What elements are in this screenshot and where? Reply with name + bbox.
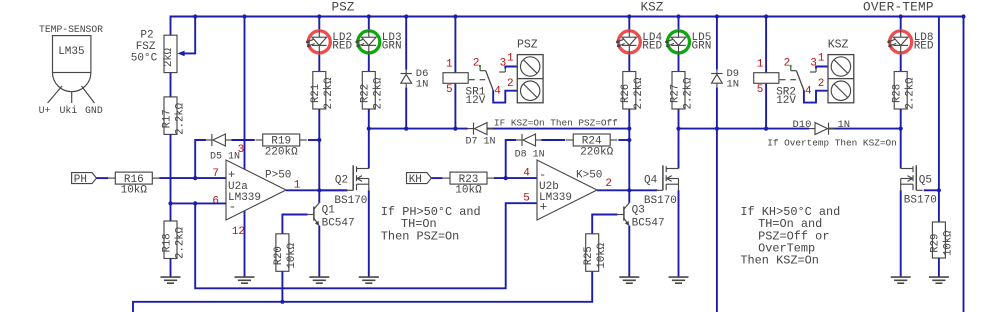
svg-text:BC547: BC547 — [322, 217, 355, 229]
svg-text:Q4: Q4 — [644, 174, 658, 186]
wire PSZ relay bus — [369, 128, 630, 130]
pin number 4 — [523, 168, 530, 180]
svg-text:BS170: BS170 — [334, 195, 367, 207]
wire: top supply bus — [171, 17, 964, 312]
wire KSZ relay bus — [679, 128, 901, 130]
resistor R22 — [360, 72, 385, 110]
svg-text:RED: RED — [332, 41, 352, 53]
svg-text:Q1: Q1 — [322, 205, 336, 217]
resistor R17 — [161, 97, 186, 135]
annotation If Overtemp Then KSZ=On — [767, 137, 896, 148]
node bus to LD8 column — [899, 127, 903, 131]
svg-text:RED: RED — [642, 41, 662, 53]
svg-text:K>50: K>50 — [576, 170, 602, 182]
wire KH tag to R23 — [431, 177, 442, 179]
wire Q1 collector — [318, 190, 320, 203]
wire D9 column — [716, 17, 718, 312]
pin number 1 (PSZ terminal) — [507, 52, 514, 64]
resistor R24 — [566, 134, 617, 159]
wire D5 to R19 — [231, 139, 254, 141]
label 1N (D10) — [838, 119, 851, 131]
wire U2a V+ pin 3 — [244, 17, 246, 170]
wire U2a out to Q2 gate — [319, 189, 347, 191]
svg-text:PH: PH — [74, 174, 87, 186]
diode D5 — [206, 134, 232, 146]
svg-text:Q3: Q3 — [632, 205, 645, 217]
node D6 on bus — [404, 127, 408, 131]
LED LD3 — [356, 30, 402, 53]
wire R28 to Q5 — [900, 109, 902, 169]
wire SR2 coil pin5 — [765, 83, 767, 128]
node SR2 pin5 on bus — [764, 127, 768, 131]
resistor R29 — [930, 222, 955, 258]
svg-text:1: 1 — [446, 58, 453, 70]
resistor R27 — [669, 72, 694, 110]
svg-text:R17: R17 — [161, 109, 173, 128]
svg-text:P>50: P>50 — [265, 170, 291, 182]
LED LD5 — [665, 30, 711, 53]
annotation If KH>50C block — [740, 205, 840, 268]
ground (Q3) — [619, 277, 639, 283]
node R22/relay bus — [367, 127, 371, 131]
wire P2 to R17 — [170, 73, 172, 97]
svg-text:2: 2 — [605, 178, 612, 190]
svg-text:2.2kΩ: 2.2kΩ — [633, 77, 645, 109]
svg-text:3: 3 — [238, 144, 245, 156]
label D10 — [793, 119, 812, 131]
input tag PH — [72, 173, 97, 187]
wire U2b output (pin2) — [597, 189, 657, 191]
pin number 12 — [232, 226, 245, 238]
label Q3 — [632, 205, 645, 217]
TEMP-SENSOR title — [39, 24, 103, 35]
node SR1 pin5 on bus — [453, 127, 457, 131]
svg-text:Uki: Uki — [60, 105, 78, 116]
screw terminal block PSZ — [517, 39, 543, 103]
wire R16 to U2a pin 7 — [159, 177, 226, 179]
annotation If PH>50C block — [381, 205, 481, 244]
wire Q3 collector — [628, 190, 630, 203]
ground (R29) — [929, 277, 949, 283]
transistor Q5 (BS170 N-MOSFET) — [901, 165, 923, 190]
annotation IF KSZ=On Then PSZ=Off — [494, 117, 618, 128]
wire TH base-drive rail — [133, 271, 592, 312]
wire Q1 emitter to ground — [318, 226, 320, 277]
pin number 4 (SR1 switch) — [494, 86, 501, 98]
svg-text:KH: KH — [409, 174, 422, 186]
node R20/base rail — [280, 300, 284, 304]
svg-text:GRN: GRN — [382, 41, 402, 53]
wire R20 to base-drive rail — [281, 271, 283, 302]
svg-text:10kΩ: 10kΩ — [455, 185, 482, 197]
pin number 3 (SR1 switch) — [500, 57, 507, 69]
svg-text:+: + — [228, 168, 235, 182]
pin number 4 (SR2 switch) — [805, 86, 812, 98]
resistor R20 — [273, 234, 298, 271]
pin number 2 (PSZ terminal) — [507, 78, 514, 90]
op-amp U2b (LM339) — [537, 160, 602, 220]
node Q5 gate/R29 column — [937, 188, 941, 192]
transistor Q2 (BS170 N-MOSFET) — [347, 165, 369, 190]
svg-text:KSZ: KSZ — [641, 0, 664, 15]
diode D7 — [468, 123, 494, 135]
resistor R23 — [443, 172, 494, 197]
ground (U2a pin12) — [235, 277, 255, 283]
sensor U1 LM35 (TO-92 outline) — [48, 36, 95, 103]
relay coil SR2 — [754, 73, 797, 108]
svg-text:LM35: LM35 — [58, 46, 84, 58]
ground (R18) — [161, 277, 181, 283]
label Q2 — [335, 174, 348, 186]
label BS170 (Q5) — [904, 195, 937, 207]
relay coil SR1 — [443, 73, 486, 108]
wire LD3 column — [368, 17, 370, 72]
potentiometer P2 labels — [131, 30, 158, 65]
pin number 5 (SR1) — [446, 84, 453, 96]
svg-text:1N: 1N — [727, 79, 740, 91]
svg-text:R25: R25 — [583, 246, 595, 265]
svg-text:6: 6 — [212, 196, 219, 208]
svg-text:2kΩ: 2kΩ — [163, 47, 175, 67]
label BC547 (Q3) — [632, 217, 665, 229]
svg-text:220kΩ: 220kΩ — [580, 147, 613, 159]
diode D10 — [809, 123, 835, 135]
svg-text:R27: R27 — [669, 84, 681, 103]
LED LD4 — [616, 30, 662, 53]
svg-text:Then KSZ=On: Then KSZ=On — [740, 254, 819, 268]
svg-text:5: 5 — [446, 84, 453, 96]
svg-text:7: 7 — [212, 168, 219, 180]
svg-text:R26: R26 — [620, 84, 632, 103]
svg-text:4: 4 — [523, 168, 530, 180]
pin number 2 — [605, 178, 612, 190]
pin number 2 (SR1 switch) — [473, 57, 480, 69]
svg-text:GRN: GRN — [692, 41, 712, 53]
svg-text:50°C: 50°C — [131, 52, 158, 64]
wire pin6 down-link to U2b pin5 (long bottom run) — [195, 203, 537, 288]
section label KSZ — [641, 0, 664, 15]
svg-text:R29: R29 — [930, 234, 942, 253]
ground (Q2) — [359, 277, 379, 283]
pin number 3 (SR2 switch) — [810, 57, 817, 69]
resistor R16 — [108, 172, 159, 197]
wire R21 to output node — [318, 109, 320, 190]
ground (Q5) — [891, 277, 911, 283]
wire R23 to U2b pin4 — [494, 177, 537, 179]
wire Q3 emitter to ground — [628, 226, 630, 277]
node pin6/downlink — [193, 201, 197, 205]
node: R19/PSZ column — [317, 138, 321, 142]
pin number 6 — [212, 196, 219, 208]
svg-text:KSZ: KSZ — [828, 39, 849, 52]
svg-text:5: 5 — [523, 193, 530, 205]
pin number 3 — [238, 144, 245, 156]
label BS170 (Q2) — [334, 195, 367, 207]
svg-text:R18: R18 — [161, 233, 173, 252]
label D8 1N — [515, 149, 545, 160]
sensor pin labels U+ Uki GND — [39, 105, 103, 116]
svg-text:D7 1N: D7 1N — [466, 137, 496, 148]
ground (Q4) — [669, 277, 689, 283]
node output/PSZ column — [317, 188, 321, 192]
svg-text:GND: GND — [85, 105, 103, 116]
wire D5 to pin7 node — [195, 140, 206, 178]
svg-text:Q5: Q5 — [919, 174, 932, 186]
wire U2a GND pin 12 — [244, 211, 246, 277]
section label OVER-TEMP — [863, 0, 934, 15]
wire D6 column — [405, 17, 407, 129]
ground (Q1) — [309, 277, 329, 283]
wire Q2 source to ground — [368, 190, 370, 277]
wire SR2 pin4 to terminal 2 — [804, 90, 828, 102]
op-amp U2a (LM339) — [226, 160, 291, 220]
svg-text:2: 2 — [818, 78, 825, 90]
resistor R21 — [310, 72, 335, 110]
wire D8 to R24 — [542, 139, 566, 141]
svg-text:LM339: LM339 — [539, 192, 572, 204]
svg-text:10kΩ: 10kΩ — [286, 242, 298, 268]
svg-text:BC547: BC547 — [632, 217, 665, 229]
node pin4 junction — [504, 176, 508, 180]
svg-text:P2: P2 — [140, 30, 153, 42]
pin number 1 (KSZ terminal) — [818, 52, 825, 64]
resistor R26 — [620, 72, 645, 110]
wire SR2 pin3 to terminal 1 — [816, 67, 828, 69]
pin number 7 — [212, 168, 219, 180]
pin number 2 (KSZ terminal) — [818, 78, 825, 90]
svg-text:LM339: LM339 — [228, 192, 261, 204]
svg-text:Then PSZ=On: Then PSZ=On — [381, 229, 460, 243]
wire LD8 column — [900, 17, 902, 72]
svg-text:2.2kΩ: 2.2kΩ — [323, 77, 335, 109]
svg-text:2: 2 — [507, 78, 514, 90]
svg-text:D10: D10 — [793, 119, 812, 131]
svg-text:4: 4 — [494, 86, 501, 98]
label Q5 — [919, 174, 932, 186]
svg-text:IF KSZ=On Then PSZ=Off: IF KSZ=On Then PSZ=Off — [494, 117, 618, 128]
resistor P2 (2k pot) — [163, 35, 177, 72]
svg-text:5: 5 — [757, 84, 764, 96]
wire D8 to pin4 node — [506, 140, 516, 178]
wire R26 down KSZ column — [628, 109, 630, 190]
LED LD8 — [888, 30, 934, 53]
resistor R25 — [583, 234, 608, 271]
node R27/KSZ relay bus — [676, 127, 680, 131]
junction dots on top bus — [193, 14, 966, 18]
wire R25 to Q3 base — [592, 215, 617, 234]
wire R20 to Q1 base — [282, 215, 307, 234]
svg-text:2.2kΩ: 2.2kΩ — [174, 102, 186, 134]
input tag KH — [407, 173, 432, 187]
pin number 1 (SR2) — [757, 58, 764, 70]
wire R19 to PSZ column — [308, 139, 319, 141]
node bus to KSZ column — [627, 127, 631, 131]
svg-text:2.2kΩ: 2.2kΩ — [682, 77, 694, 109]
screw terminal block KSZ — [828, 39, 854, 103]
svg-text:2.2kΩ: 2.2kΩ — [174, 226, 186, 258]
svg-text:R28: R28 — [892, 84, 904, 103]
svg-text:2.2kΩ: 2.2kΩ — [373, 77, 385, 109]
svg-text:RED: RED — [914, 41, 934, 53]
diode D8 — [516, 134, 542, 146]
label BC547 — [322, 217, 355, 229]
pin number 2 (SR2 switch) — [784, 57, 791, 69]
svg-text:TEMP-SENSOR: TEMP-SENSOR — [39, 24, 103, 35]
pin number 5 (SR2) — [757, 84, 764, 96]
P2 wiper wire and arrow — [177, 17, 195, 57]
svg-text:2: 2 — [784, 57, 791, 69]
node: divider junction on pin6 net — [168, 201, 172, 205]
wire pin6 net (divider to U2a -) — [171, 202, 227, 204]
svg-text:2.2kΩ: 2.2kΩ — [905, 77, 917, 109]
svg-text:PSZ: PSZ — [517, 39, 538, 52]
wire LD5 column — [678, 17, 680, 72]
wire Q4 source to ground — [678, 190, 680, 277]
wire SR1 pin3 to terminal 1 — [505, 67, 517, 69]
pin number 1 — [294, 180, 301, 192]
svg-text:Q2: Q2 — [335, 174, 348, 186]
resistor R28 — [892, 72, 917, 110]
pin number 1 (SR1) — [446, 58, 453, 70]
svg-text:R22: R22 — [360, 84, 372, 103]
label Q1 — [322, 205, 336, 217]
label D7 1N — [466, 137, 496, 148]
svg-text:1: 1 — [757, 58, 764, 70]
resistor R19 — [256, 134, 307, 159]
svg-text:D8 1N: D8 1N — [515, 149, 545, 160]
svg-text:12: 12 — [232, 226, 245, 238]
wire Q5 source to ground — [900, 190, 902, 277]
LED LD2 — [306, 30, 352, 53]
wire U2a output (pin1) — [286, 189, 347, 191]
transistor Q3 (BC547 NPN) — [617, 203, 629, 226]
wire SR1 coil pin1 — [454, 17, 456, 73]
svg-text:D5 1N: D5 1N — [210, 152, 240, 163]
wire LD2 column — [318, 17, 320, 72]
relay switch contact (SR1) — [479, 65, 505, 91]
wire SR1 pin4 to terminal 2 — [493, 90, 517, 102]
svg-text:10kΩ: 10kΩ — [596, 242, 608, 268]
wire SR2 coil pin1 — [765, 17, 767, 73]
wire R18 to ground — [170, 259, 172, 278]
svg-text:BS170: BS170 — [644, 195, 677, 207]
svg-text:PSZ: PSZ — [332, 0, 355, 15]
svg-text:1: 1 — [507, 52, 514, 64]
svg-text:R20: R20 — [273, 246, 285, 265]
svg-text:12V: 12V — [776, 95, 796, 107]
node D9 on bus — [715, 127, 719, 131]
svg-text:-: - — [539, 168, 546, 182]
svg-text:1N: 1N — [838, 119, 851, 131]
svg-text:OVER-TEMP: OVER-TEMP — [863, 0, 934, 15]
transistor Q1 (BC547 NPN) — [307, 203, 319, 226]
wire R29 column from bus — [938, 17, 940, 223]
svg-text:10kΩ: 10kΩ — [943, 230, 955, 256]
node output/KSZ column — [627, 188, 631, 192]
svg-text:U+: U+ — [39, 105, 51, 116]
node: pin7 junction — [193, 176, 197, 180]
label Q4 — [644, 174, 658, 186]
pin number 5 — [523, 193, 530, 205]
svg-text:1N: 1N — [416, 79, 429, 91]
label D5 1N — [210, 152, 240, 163]
wire R17 down to divider node — [170, 134, 172, 221]
diode D6 — [401, 68, 429, 90]
transistor Q4 (BS170 N-MOSFET) — [657, 165, 679, 190]
wire R22 to Q2 drain — [368, 109, 370, 169]
svg-text:2: 2 — [473, 57, 480, 69]
label BS170 (Q4) — [644, 195, 677, 207]
section label PSZ — [332, 0, 355, 15]
wire LD4 column — [628, 17, 630, 72]
svg-text:220kΩ: 220kΩ — [265, 147, 298, 159]
svg-text:R21: R21 — [310, 84, 322, 103]
svg-text:BS170: BS170 — [904, 195, 937, 207]
wire R29 to ground — [938, 258, 940, 277]
wire PH tag to R16 — [97, 177, 109, 179]
wire SR1 coil pin5 — [454, 83, 456, 128]
svg-text:FSZ: FSZ — [136, 41, 156, 53]
resistor R18 — [161, 221, 186, 259]
diode D9 — [711, 68, 739, 90]
wire R27 to Q4 drain — [678, 109, 680, 169]
node R24/KSZ column — [627, 138, 631, 142]
svg-text:1: 1 — [818, 52, 825, 64]
relay switch contact (SR2) — [790, 65, 816, 91]
wire R24 to KSZ column — [618, 139, 629, 141]
svg-text:12V: 12V — [466, 95, 486, 107]
svg-text:4: 4 — [805, 86, 812, 98]
svg-text:10kΩ: 10kΩ — [121, 185, 148, 197]
svg-text:If Overtemp Then KSZ=On: If Overtemp Then KSZ=On — [767, 137, 896, 148]
wire Q5 gate to R29 column — [924, 189, 939, 191]
